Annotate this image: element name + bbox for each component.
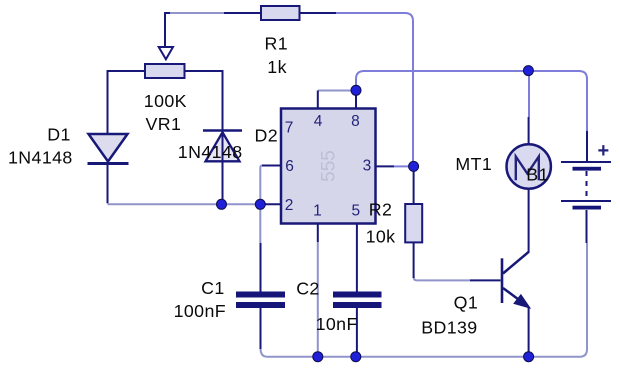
svg-text:D1: D1 bbox=[47, 125, 71, 145]
svg-text:1: 1 bbox=[313, 203, 322, 220]
svg-text:VR1: VR1 bbox=[146, 114, 182, 134]
svg-text:2: 2 bbox=[285, 197, 294, 214]
svg-text:8: 8 bbox=[351, 113, 360, 130]
svg-text:4: 4 bbox=[314, 113, 323, 130]
svg-text:1N4148: 1N4148 bbox=[178, 142, 243, 162]
svg-text:7: 7 bbox=[285, 120, 294, 137]
svg-text:R1: R1 bbox=[265, 34, 289, 54]
svg-text:6: 6 bbox=[285, 158, 294, 175]
svg-text:3: 3 bbox=[363, 158, 372, 175]
svg-text:10k: 10k bbox=[366, 227, 396, 247]
svg-text:C2: C2 bbox=[296, 279, 320, 299]
svg-text:B1: B1 bbox=[526, 165, 549, 185]
svg-text:BD139: BD139 bbox=[421, 318, 477, 338]
svg-text:10nF: 10nF bbox=[316, 314, 358, 334]
svg-text:1k: 1k bbox=[267, 57, 287, 77]
svg-text:D2: D2 bbox=[255, 126, 279, 146]
svg-text:100K: 100K bbox=[144, 91, 187, 111]
svg-text:Q1: Q1 bbox=[454, 293, 479, 313]
svg-text:1N4148: 1N4148 bbox=[8, 148, 73, 168]
svg-text:5: 5 bbox=[351, 203, 360, 220]
svg-text:+: + bbox=[598, 140, 610, 162]
svg-text:555: 555 bbox=[319, 150, 340, 182]
svg-text:100nF: 100nF bbox=[174, 301, 226, 321]
svg-text:MT1: MT1 bbox=[455, 154, 492, 174]
svg-text:C1: C1 bbox=[201, 278, 225, 298]
svg-text:R2: R2 bbox=[369, 200, 393, 220]
